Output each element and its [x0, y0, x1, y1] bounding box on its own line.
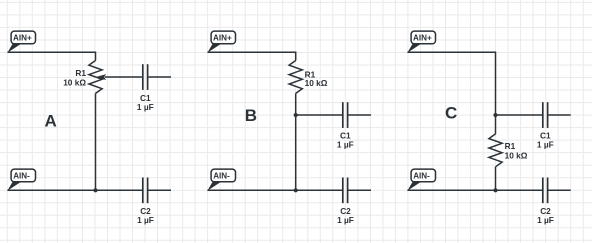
svg-text:R1: R1	[75, 68, 86, 78]
svg-text:10 kΩ: 10 kΩ	[305, 78, 328, 88]
svg-text:AIN-: AIN-	[213, 171, 230, 180]
svg-text:AIN+: AIN+	[13, 33, 32, 42]
svg-text:1 µF: 1 µF	[137, 102, 154, 112]
svg-text:1 µF: 1 µF	[537, 215, 554, 225]
svg-text:AIN+: AIN+	[213, 33, 232, 42]
svg-text:10 kΩ: 10 kΩ	[505, 150, 528, 160]
svg-text:A: A	[44, 112, 56, 131]
svg-text:1 µF: 1 µF	[337, 215, 354, 225]
svg-text:10 kΩ: 10 kΩ	[63, 77, 86, 87]
svg-text:C: C	[445, 103, 457, 122]
svg-text:1 µF: 1 µF	[137, 215, 154, 225]
svg-text:AIN-: AIN-	[413, 171, 430, 180]
svg-text:AIN+: AIN+	[413, 33, 432, 42]
svg-text:1 µF: 1 µF	[537, 139, 554, 149]
svg-text:B: B	[245, 106, 257, 125]
svg-text:1 µF: 1 µF	[337, 139, 354, 149]
svg-text:AIN-: AIN-	[13, 171, 30, 180]
